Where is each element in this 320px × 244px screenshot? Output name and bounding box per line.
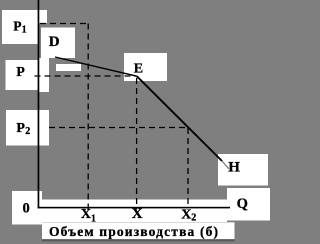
svg-text:H: H [228,159,240,175]
svg-text:X: X [181,207,191,222]
label box P2 background [6,110,49,146]
x-axis labels strip background [42,200,227,223]
dashed guide line P2 horizontal [49,127,188,129]
svg-text:E: E [134,61,143,76]
demand curve faded tip at H [222,161,229,169]
demand curve segment E-H [137,76,222,161]
label box P background [6,60,39,90]
dashed guide line X1 vertical [87,24,89,210]
y-axis [38,0,40,208]
svg-text:Объем производства (б): Объем производства (б) [49,224,218,239]
x-axis [38,207,230,209]
dashed guide line P horizontal [35,75,137,77]
label box P1 background [2,10,39,44]
demand curve segment D-E [55,57,137,76]
dashed guide line P1 horizontal [40,23,89,25]
label box 0 background [12,191,42,225]
svg-text:Q: Q [237,196,248,212]
label box D background [41,28,75,59]
svg-text:P: P [16,121,25,136]
dashed guide line X2 vertical [187,128,189,208]
svg-text:2: 2 [191,212,196,223]
svg-text:2: 2 [25,126,30,137]
svg-text:X: X [132,206,143,222]
white strip under D [56,64,81,71]
svg-text:1: 1 [22,25,27,36]
label box Q background [227,188,270,221]
svg-text:P: P [16,65,25,80]
svg-text:D: D [49,34,60,50]
svg-text:X: X [81,207,91,222]
caption box bottom rule [42,239,235,241]
label box H background [218,154,268,186]
label box E background [124,53,167,81]
svg-text:P: P [13,18,21,33]
dashed guide line X vertical [136,78,138,210]
caption box background [42,222,235,239]
label box P1 extension right of axis [39,10,47,23]
label box P extension right of axis [39,58,50,92]
svg-text:0: 0 [23,200,30,216]
